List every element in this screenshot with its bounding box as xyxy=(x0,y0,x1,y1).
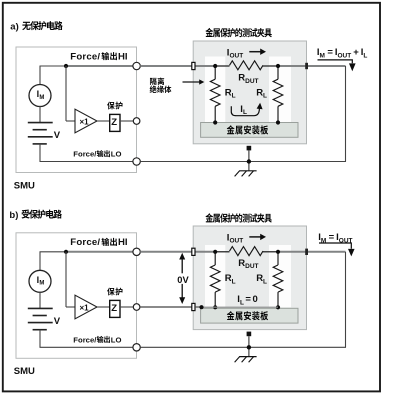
fixture insulator strip right (a) xyxy=(269,57,291,123)
label IM = IOUT (b) xyxy=(318,232,352,244)
svg-text:0V: 0V xyxy=(177,275,189,285)
svg-text:OUT: OUT xyxy=(338,52,352,59)
junction: ground to LO rail (a) xyxy=(247,159,251,163)
net label Force/输出HI (a) xyxy=(70,51,128,62)
label 保护 (guard) (b) xyxy=(107,288,122,296)
label RL right (b) xyxy=(256,273,267,285)
buffer amplifier x1 (b) xyxy=(75,295,97,319)
resistor RL left (b) xyxy=(214,252,216,265)
feedthrough insulator left wall (b) xyxy=(192,248,195,255)
label RL left (b) xyxy=(225,273,236,285)
feedthrough connector right wall (b) xyxy=(305,249,308,255)
svg-text:b): b) xyxy=(9,210,18,221)
label IL with circulating arrow (a) xyxy=(231,103,262,116)
svg-text:L: L xyxy=(232,278,236,285)
feedthrough connector right wall (a) xyxy=(305,63,308,69)
label IOUT with arrow (a) xyxy=(227,47,266,59)
wire: Z to guard terminal (a) xyxy=(120,120,133,122)
section label a xyxy=(10,21,62,32)
SMU box outline (a) xyxy=(16,47,137,173)
svg-text:M: M xyxy=(39,281,44,287)
wire: Force HI from source corner to HI terminal (a) xyxy=(39,66,41,85)
svg-text:V: V xyxy=(54,130,61,141)
test fixture title 金属保护的测试夹具 (a) xyxy=(205,28,271,37)
svg-text:L: L xyxy=(240,299,244,306)
svg-text:L: L xyxy=(232,93,236,100)
terminal circle Force/输出LO (b) xyxy=(133,344,140,351)
wire: junction down to buffer input (a) xyxy=(65,66,67,121)
terminal circle guard (b) xyxy=(133,304,140,311)
chassis ground symbol (b) xyxy=(239,356,256,358)
svg-text:OUT: OUT xyxy=(229,238,243,245)
terminal circle Force/输出HI (b) xyxy=(133,248,140,255)
wire: Force HI from source corner to HI terminal (b) xyxy=(39,252,41,271)
wire: fixture to right rail and return to LO (b) xyxy=(308,251,346,253)
svg-text:×1: ×1 xyxy=(80,303,90,312)
svg-text:Force/: Force/ xyxy=(70,237,100,248)
metal mounting plate 金属安装板 (b) xyxy=(201,308,298,323)
guard impedance Z (b) xyxy=(110,300,120,317)
svg-text:SMU: SMU xyxy=(14,366,35,377)
svg-text:M: M xyxy=(320,52,325,59)
label IL = 0 (b) xyxy=(237,294,257,306)
arrow: isolation insulator pointer (a) xyxy=(183,81,200,83)
resistor RL right (a) xyxy=(277,66,279,79)
feedthrough insulator left wall (a) xyxy=(192,62,195,69)
svg-text:L: L xyxy=(263,278,267,285)
terminal circle guard (a) xyxy=(133,118,140,125)
label IM = IOUT + IL (a) xyxy=(317,47,368,59)
current source/meter IM (b) xyxy=(29,270,51,292)
battery V (a) xyxy=(28,123,53,144)
current source/meter IM (a) xyxy=(29,85,51,107)
svg-text:=: = xyxy=(245,294,251,305)
terminal circle Force/输出LO (a) xyxy=(133,158,140,165)
svg-text:HI: HI xyxy=(118,237,128,248)
wire: fixture chassis to ground (a) xyxy=(247,146,252,151)
svg-text:×1: ×1 xyxy=(80,117,90,126)
terminal circle Force/输出HI (a) xyxy=(133,62,140,69)
svg-text:=: = xyxy=(327,47,333,58)
svg-text:0: 0 xyxy=(252,294,257,305)
battery V (b) xyxy=(28,308,53,329)
fixture insulator strip left (a) xyxy=(205,57,225,123)
test fixture title 金属保护的测试夹具 (b) xyxy=(205,213,271,222)
arrow: IM current direction (a) xyxy=(318,60,353,63)
label RDUT (b) xyxy=(238,258,258,270)
junction: ground to LO rail (b) xyxy=(247,345,251,349)
wire: junction down to buffer input (b) xyxy=(65,252,67,307)
guard impedance Z (a) xyxy=(110,114,120,131)
section label b xyxy=(9,210,62,221)
feedthrough insulator guard (b) xyxy=(192,303,195,310)
svg-text:SMU: SMU xyxy=(14,180,35,191)
svg-text:OUT: OUT xyxy=(229,53,243,60)
label IOUT with arrow (b) xyxy=(227,233,266,245)
svg-text:DUT: DUT xyxy=(245,78,258,85)
wire: fixture to right rail and return to LO (a) xyxy=(308,65,346,67)
svg-text:LO: LO xyxy=(111,150,122,159)
metal mounting plate 金属安装板 (a) xyxy=(201,123,298,138)
resistor RDUT (b) xyxy=(230,247,264,256)
SMU box outline (b) xyxy=(16,233,137,358)
resistor RL left (a) xyxy=(214,66,216,79)
junction: HI wire to buffer input (a) xyxy=(64,64,68,68)
wire: guard to plate node (b) xyxy=(195,306,202,308)
wire: buffer to Z (a) xyxy=(97,120,110,122)
svg-text:V: V xyxy=(54,316,61,327)
fixture insulator strip left (b) xyxy=(205,245,225,307)
fixture insulator strip right (b) xyxy=(269,245,291,307)
buffer amplifier x1 (a) xyxy=(75,109,97,133)
wire: HI through fixture (b) xyxy=(140,251,215,253)
label RDUT (a) xyxy=(238,73,258,85)
net label Force/输出HI (b) xyxy=(70,237,128,248)
wire: meter to battery (b) xyxy=(39,292,41,309)
svg-text:a): a) xyxy=(10,21,18,32)
wire: buffer to Z (b) xyxy=(97,306,110,308)
wire: guard to fixture (b) xyxy=(140,306,192,308)
arrow: IM current direction (b) xyxy=(319,243,351,249)
svg-text:LO: LO xyxy=(111,335,122,344)
chassis ground symbol (a) xyxy=(239,170,256,172)
wire: Z to guard terminal (b) xyxy=(120,306,133,308)
junction dot guard node (b) xyxy=(199,305,203,309)
svg-text:M: M xyxy=(39,95,44,101)
wire: HI through fixture (a) xyxy=(140,65,215,67)
junction: HI wire to buffer input (b) xyxy=(64,250,68,254)
wire: fixture chassis to ground (b) xyxy=(247,332,252,337)
svg-text:=: = xyxy=(329,232,335,243)
resistor RL right (b) xyxy=(277,252,279,265)
test fixture shield box (b) xyxy=(193,226,306,330)
svg-text:HI: HI xyxy=(118,51,128,62)
wire: battery to LO rail (a) xyxy=(39,144,41,162)
0V double arrow between HI and guard (b) xyxy=(175,253,189,304)
label 保护 (guard) (a) xyxy=(107,102,122,110)
svg-text:DUT: DUT xyxy=(245,263,258,270)
net label Force/输出LO (a) xyxy=(73,150,121,159)
svg-text:Z: Z xyxy=(111,117,117,128)
svg-text:Force/: Force/ xyxy=(70,51,100,62)
junction dots DUT nodes (a) xyxy=(213,64,217,68)
svg-text:Force/: Force/ xyxy=(73,150,97,159)
junction dots DUT nodes (b) xyxy=(213,250,217,254)
net label Force/输出LO (b) xyxy=(73,335,121,344)
wire: battery to LO rail (b) xyxy=(39,330,41,348)
svg-text:+: + xyxy=(353,47,359,58)
wire: meter to battery (a) xyxy=(39,106,41,123)
svg-text:Z: Z xyxy=(111,303,117,314)
svg-text:Force/: Force/ xyxy=(73,335,97,344)
label RL right (a) xyxy=(256,87,267,99)
svg-text:L: L xyxy=(363,52,367,59)
test fixture shield box (a) xyxy=(193,41,306,144)
label 隔离绝缘体 (isolation insulator) (a) xyxy=(150,77,172,93)
svg-text:L: L xyxy=(263,93,267,100)
label RL left (a) xyxy=(225,87,236,99)
resistor RDUT (a) xyxy=(230,61,264,70)
